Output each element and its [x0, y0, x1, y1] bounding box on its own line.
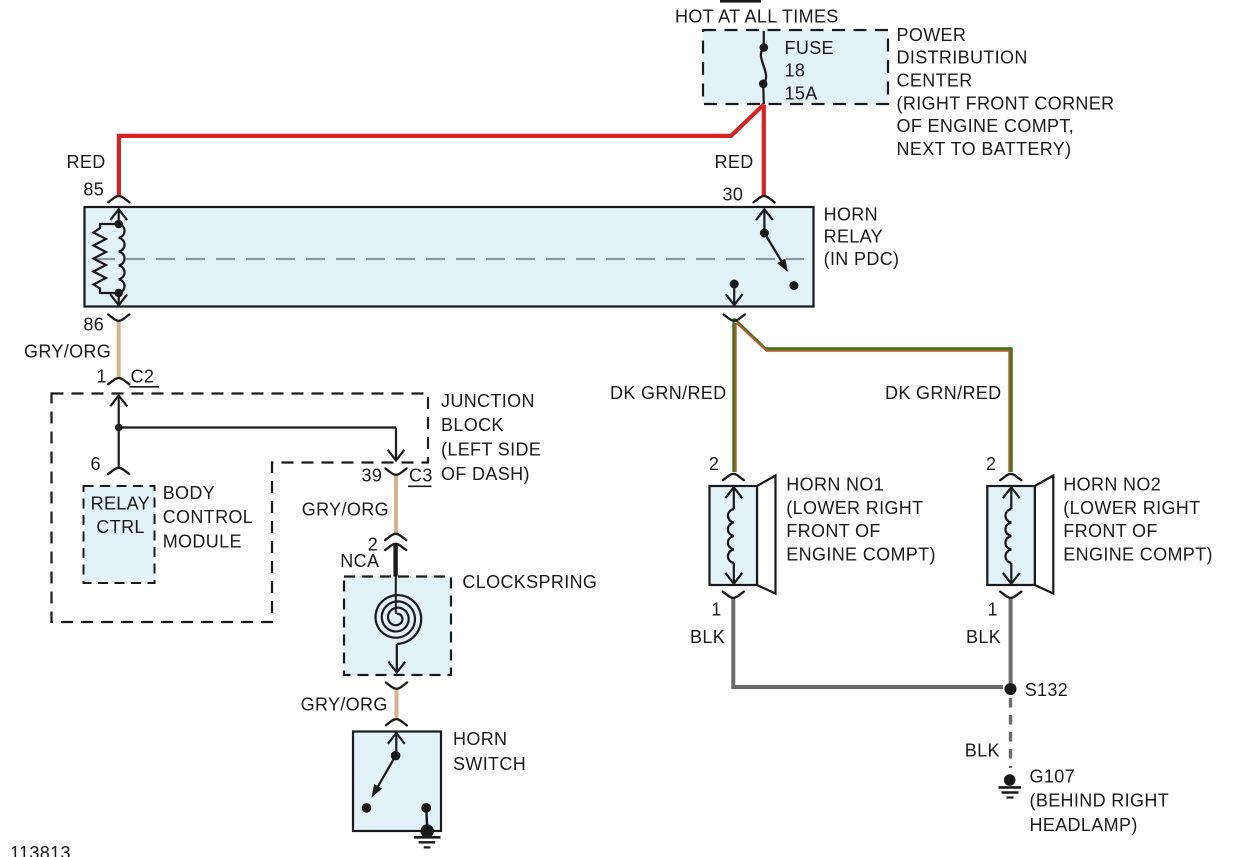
svg-text:HEADLAMP): HEADLAMP) — [1030, 815, 1138, 835]
svg-text:1: 1 — [97, 366, 107, 386]
svg-text:CLOCKSPRING: CLOCKSPRING — [462, 572, 597, 592]
svg-text:FRONT OF: FRONT OF — [786, 521, 880, 541]
svg-text:C2: C2 — [131, 366, 155, 386]
svg-text:BLK: BLK — [966, 627, 1001, 647]
svg-text:DK GRN/RED: DK GRN/RED — [885, 383, 1002, 403]
svg-text:39: 39 — [362, 466, 383, 486]
svg-text:DK GRN/RED: DK GRN/RED — [610, 383, 727, 403]
svg-text:1: 1 — [988, 599, 998, 619]
svg-text:HORN: HORN — [824, 204, 878, 224]
svg-text:(LOWER RIGHT: (LOWER RIGHT — [1063, 498, 1200, 518]
svg-text:BODY: BODY — [163, 483, 215, 503]
svg-text:(IN PDC): (IN PDC) — [824, 249, 900, 269]
svg-text:POWER: POWER — [897, 25, 967, 45]
svg-text:GRY/ORG: GRY/ORG — [24, 341, 111, 361]
svg-text:86: 86 — [83, 314, 104, 334]
svg-text:NCA: NCA — [340, 551, 379, 571]
svg-text:HORN: HORN — [453, 729, 507, 749]
svg-text:G107: G107 — [1030, 766, 1075, 786]
svg-text:30: 30 — [723, 184, 744, 204]
svg-text:2: 2 — [986, 454, 996, 474]
svg-text:GRY/ORG: GRY/ORG — [302, 499, 389, 519]
svg-text:SWITCH: SWITCH — [453, 754, 526, 774]
svg-text:HORN NO1: HORN NO1 — [786, 474, 884, 494]
svg-text:DISTRIBUTION: DISTRIBUTION — [897, 48, 1028, 68]
svg-text:ENGINE COMPT): ENGINE COMPT) — [1063, 545, 1213, 565]
svg-text:(BEHIND RIGHT: (BEHIND RIGHT — [1030, 791, 1170, 811]
svg-text:2: 2 — [709, 454, 719, 474]
svg-text:RELAY: RELAY — [91, 494, 150, 514]
svg-text:RED: RED — [67, 152, 106, 172]
svg-text:15A: 15A — [785, 83, 818, 103]
svg-text:S132: S132 — [1025, 680, 1068, 700]
svg-text:JUNCTION: JUNCTION — [441, 391, 535, 411]
svg-text:MODULE: MODULE — [163, 531, 242, 551]
svg-text:NEXT TO BATTERY): NEXT TO BATTERY) — [897, 139, 1072, 159]
svg-text:FRONT OF: FRONT OF — [1063, 521, 1157, 541]
svg-text:HOT AT ALL TIMES: HOT AT ALL TIMES — [675, 6, 839, 26]
svg-text:CENTER: CENTER — [897, 70, 973, 90]
svg-text:HORN NO2: HORN NO2 — [1063, 474, 1161, 494]
svg-text:BLK: BLK — [965, 740, 1000, 760]
svg-text:(LEFT SIDE: (LEFT SIDE — [441, 439, 541, 459]
svg-text:85: 85 — [83, 179, 104, 199]
svg-text:113813: 113813 — [10, 843, 71, 857]
svg-text:(RIGHT FRONT CORNER: (RIGHT FRONT CORNER — [897, 93, 1115, 113]
svg-text:CTRL: CTRL — [96, 517, 144, 537]
svg-text:BLK: BLK — [690, 627, 725, 647]
svg-text:OF ENGINE COMPT,: OF ENGINE COMPT, — [897, 116, 1075, 136]
svg-text:C3: C3 — [409, 466, 433, 486]
svg-text:RELAY: RELAY — [824, 227, 883, 247]
svg-text:BLOCK: BLOCK — [441, 415, 504, 435]
svg-text:GRY/ORG: GRY/ORG — [301, 694, 388, 714]
svg-text:CONTROL: CONTROL — [163, 507, 253, 527]
svg-text:ENGINE COMPT): ENGINE COMPT) — [786, 545, 936, 565]
svg-text:OF DASH): OF DASH) — [441, 464, 530, 484]
svg-text:18: 18 — [785, 61, 806, 81]
svg-text:(LOWER RIGHT: (LOWER RIGHT — [786, 498, 923, 518]
svg-text:FUSE: FUSE — [785, 38, 834, 58]
svg-text:RED: RED — [715, 152, 754, 172]
svg-text:1: 1 — [711, 599, 721, 619]
svg-text:6: 6 — [91, 454, 101, 474]
